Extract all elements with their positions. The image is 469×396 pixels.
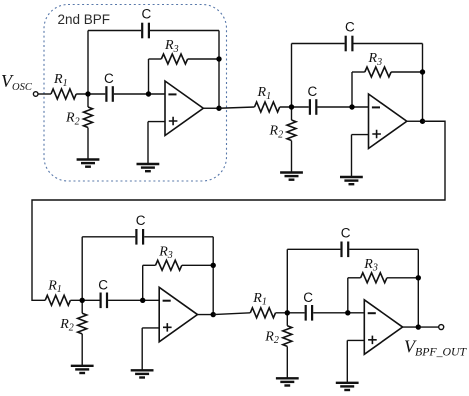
svg-text:2nd BPF: 2nd BPF: [58, 12, 111, 27]
svg-text:VBPF_OUT: VBPF_OUT: [404, 337, 468, 359]
svg-text:VOSC: VOSC: [1, 71, 33, 93]
